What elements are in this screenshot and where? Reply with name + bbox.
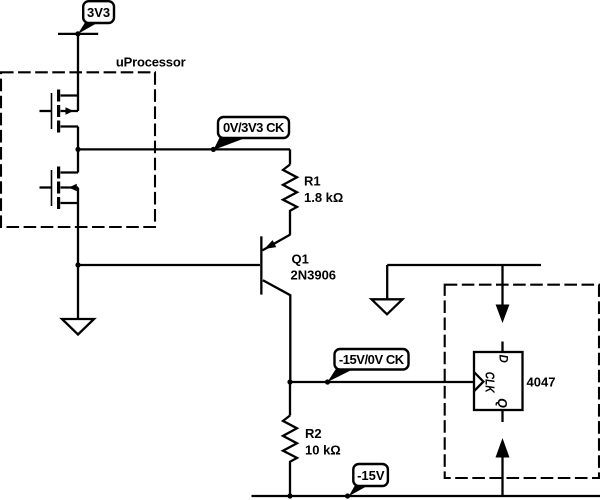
- svg-text:10 kΩ: 10 kΩ: [305, 443, 341, 458]
- svg-text:-15V/0V CK: -15V/0V CK: [339, 352, 405, 367]
- svg-text:uProcessor: uProcessor: [116, 55, 186, 70]
- svg-text:R2: R2: [305, 426, 322, 441]
- svg-text:2N3906: 2N3906: [291, 268, 337, 283]
- svg-text:CLK: CLK: [483, 372, 497, 394]
- svg-text:-15V: -15V: [357, 468, 385, 483]
- svg-text:4047: 4047: [527, 375, 556, 390]
- svg-text:Q: Q: [495, 398, 509, 408]
- svg-text:3V3: 3V3: [87, 5, 110, 20]
- svg-text:D: D: [496, 354, 508, 362]
- svg-text:R1: R1: [304, 174, 321, 189]
- svg-text:Q1: Q1: [292, 252, 309, 267]
- svg-text:0V/3V3 CK: 0V/3V3 CK: [223, 120, 285, 135]
- svg-text:1.8 kΩ: 1.8 kΩ: [304, 190, 343, 205]
